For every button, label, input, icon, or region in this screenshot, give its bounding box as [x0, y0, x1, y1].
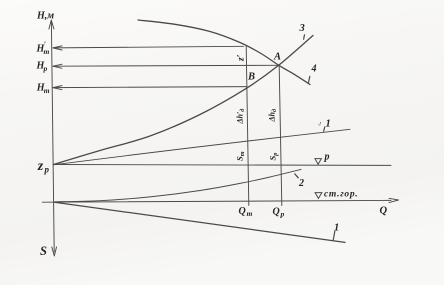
svg-text:·!: ·!: [318, 122, 322, 128]
svg-text:т: т: [44, 86, 50, 95]
tick at label 1 lower: [333, 231, 335, 240]
Q axis right arrowhead: [389, 198, 399, 202]
H axis top arrowhead: [49, 20, 54, 29]
svg-text:4: 4: [311, 64, 317, 75]
svg-text:р: р: [43, 64, 48, 73]
svg-text:Н,м: Н,м: [36, 11, 54, 22]
Hp level line: [54, 64, 278, 67]
tick from curve 2 end to label 2: [295, 174, 299, 179]
Qt vertical line: [246, 46, 249, 206]
svg-text:Q: Q: [380, 206, 388, 217]
Hp left arrowhead: [53, 64, 62, 68]
water level symbol st.gor. (nabla): [315, 193, 322, 199]
H't left arrowhead: [53, 46, 62, 50]
tick at curve 3 end: [303, 35, 306, 39]
line 1 upper (ray from z_p): [54, 129, 351, 165]
svg-text:А: А: [273, 52, 281, 63]
svg-text:1: 1: [326, 119, 331, 130]
svg-text:р: р: [44, 165, 50, 175]
svg-text:3: 3: [299, 23, 305, 34]
svg-text:т: т: [247, 209, 253, 218]
svg-text:S: S: [40, 244, 47, 258]
Ht left arrowhead: [53, 86, 62, 90]
pump curve 4: [138, 20, 310, 85]
network curve 3 through B and A: [54, 36, 314, 165]
p water level line: [54, 164, 391, 167]
svg-text:р: р: [280, 210, 285, 219]
line 1 lower (below Q axis): [55, 202, 346, 242]
H't level line: [54, 46, 244, 48]
Ht level line: [54, 87, 247, 88]
tick at curve 4 end: [309, 76, 310, 82]
curve 2 (network curve from origin): [55, 169, 302, 201]
svg-text:z′: z′: [237, 54, 247, 62]
S axis bottom arrowhead: [52, 247, 57, 256]
tick at label 1 upper: [324, 127, 325, 131]
svg-text:2: 2: [298, 178, 304, 189]
svg-text:Q: Q: [273, 207, 280, 218]
svg-text:z: z: [37, 159, 44, 174]
svg-text:В: В: [247, 72, 255, 83]
Q axis (horizontal): [42, 200, 391, 202]
svg-text:Q: Q: [239, 206, 246, 217]
Qp vertical line: [279, 66, 282, 205]
svg-text:1: 1: [334, 223, 339, 234]
water level symbol p (nabla): [315, 159, 322, 165]
svg-text:ст.гор.: ст.гор.: [324, 190, 358, 200]
H axis (vertical): [51, 22, 54, 252]
svg-text:р: р: [324, 152, 330, 163]
